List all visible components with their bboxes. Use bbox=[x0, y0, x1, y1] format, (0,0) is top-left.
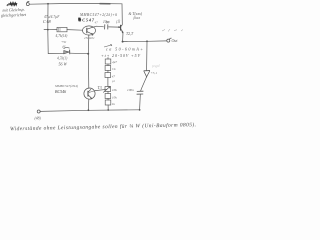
svg-text:10µ: 10µ bbox=[103, 20, 109, 24]
svg-text:MMBC547(2N4): MMBC547(2N4) bbox=[54, 84, 79, 88]
svg-text:+t+ 20-50V +5V: +t+ 20-50V +5V bbox=[101, 53, 140, 58]
svg-text:4µ7: 4µ7 bbox=[112, 60, 117, 64]
svg-text:T2,T: T2,T bbox=[126, 32, 134, 37]
svg-text:4,7k(1k): 4,7k(1k) bbox=[56, 34, 69, 39]
svg-text:Ck: Ck bbox=[112, 67, 116, 71]
svg-text:BC546: BC546 bbox=[55, 89, 66, 94]
svg-text:T3: T3 bbox=[98, 85, 102, 90]
svg-text:C 68: C 68 bbox=[43, 19, 51, 24]
svg-text:+W: +W bbox=[61, 40, 67, 44]
svg-text:çΩ: çΩ bbox=[116, 20, 121, 24]
svg-text:Out: Out bbox=[172, 38, 179, 43]
svg-text:Widerstände ohne Leistungsanga: Widerstände ohne Leistungsangabe sollen … bbox=[10, 121, 196, 132]
svg-text:µt: µt bbox=[112, 79, 115, 83]
svg-text:2N4401: 2N4401 bbox=[84, 36, 95, 40]
svg-text:47: 47 bbox=[95, 20, 99, 24]
svg-text:10k: 10k bbox=[112, 88, 117, 92]
svg-text:+5,1: +5,1 bbox=[151, 71, 158, 76]
svg-text:µsgd: µsgd bbox=[152, 64, 160, 68]
svg-text:gleichgerichtet: gleichgerichtet bbox=[1, 12, 27, 18]
svg-text:100n: 100n bbox=[127, 88, 134, 92]
svg-text:βxxx: βxxx bbox=[133, 16, 141, 20]
svg-text:& T(xxx): & T(xxx) bbox=[129, 12, 143, 16]
svg-text:βL: βL bbox=[62, 44, 67, 48]
svg-text:(48): (48) bbox=[35, 117, 42, 121]
svg-text:1k: 1k bbox=[112, 102, 116, 106]
svg-text:47: 47 bbox=[112, 75, 116, 79]
svg-text:10k: 10k bbox=[112, 96, 117, 100]
svg-text:ca 50-60mA+: ca 50-60mA+ bbox=[106, 47, 143, 52]
svg-text:56 W: 56 W bbox=[59, 62, 68, 67]
